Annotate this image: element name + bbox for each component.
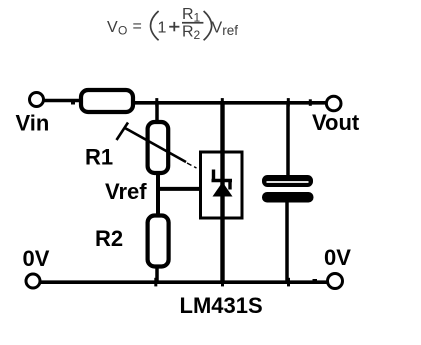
shunt regulator U1 LM431S body box (201, 152, 243, 218)
capacitor C1 bottom plate (262, 192, 314, 203)
svg-text:V: V (107, 19, 118, 36)
resistor R2 (148, 216, 169, 267)
svg-text:=: = (133, 18, 142, 35)
zener triangle (anode) (213, 182, 233, 197)
terminal Vout (326, 96, 341, 111)
svg-text:Vin: Vin (16, 111, 50, 136)
node anode junction tick (221, 278, 224, 287)
pin tick at Vout (309, 99, 312, 106)
svg-text:O: O (118, 23, 127, 37)
wire R2 bottom stub (155, 267, 159, 283)
svg-text:Vout: Vout (312, 110, 360, 135)
cathode bar right bend (228, 181, 231, 190)
svg-text:R: R (182, 24, 194, 41)
adjustable arrow through R1 (124, 128, 186, 163)
node capacitor top junction tick (287, 98, 290, 106)
wire cathode-anode through LM431S (220, 102, 224, 282)
cathode bar left bend (212, 170, 215, 182)
resistor (series, unlabeled) (81, 90, 133, 112)
svg-text:ref: ref (222, 23, 238, 38)
node capacitor bottom junction tick (287, 278, 290, 287)
capacitor C1 top plate (262, 175, 313, 187)
node cathode junction tick (221, 98, 224, 106)
svg-text:LM431S: LM431S (180, 293, 263, 318)
terminal Vin (30, 93, 44, 107)
svg-text:0V: 0V (23, 246, 50, 271)
svg-text:R2: R2 (95, 226, 123, 251)
svg-text:1: 1 (158, 19, 167, 36)
formula Vo = (1 + R1/R2)Vref (107, 6, 238, 42)
pin tick at resistor left (71, 101, 75, 105)
resistor R1 (148, 122, 169, 173)
svg-text:Vref: Vref (105, 179, 147, 204)
wire R1 top stub (155, 103, 159, 122)
svg-text:V: V (212, 19, 223, 36)
wire top rail to Vout (135, 101, 326, 105)
wire R1 bottom to R2 top (node Vref) (156, 174, 160, 215)
node R2 bottom junction tick (154, 278, 157, 287)
node R1 top junction tick (155, 98, 158, 106)
zener cathode bar (212, 179, 233, 182)
terminal 0V right (328, 274, 343, 289)
svg-text:R1: R1 (85, 145, 113, 170)
wire Vin to series resistor (44, 99, 79, 103)
svg-text:R: R (182, 6, 194, 23)
wire bottom rail (41, 280, 328, 284)
wire Vref to reference pin (158, 187, 218, 191)
svg-text:0V: 0V (324, 245, 351, 270)
pin tick at 0V right (313, 279, 318, 284)
wire capacitor top (286, 102, 290, 177)
wire capacitor bottom (285, 201, 289, 282)
terminal 0V left (26, 274, 40, 288)
svg-text:2: 2 (194, 28, 201, 42)
